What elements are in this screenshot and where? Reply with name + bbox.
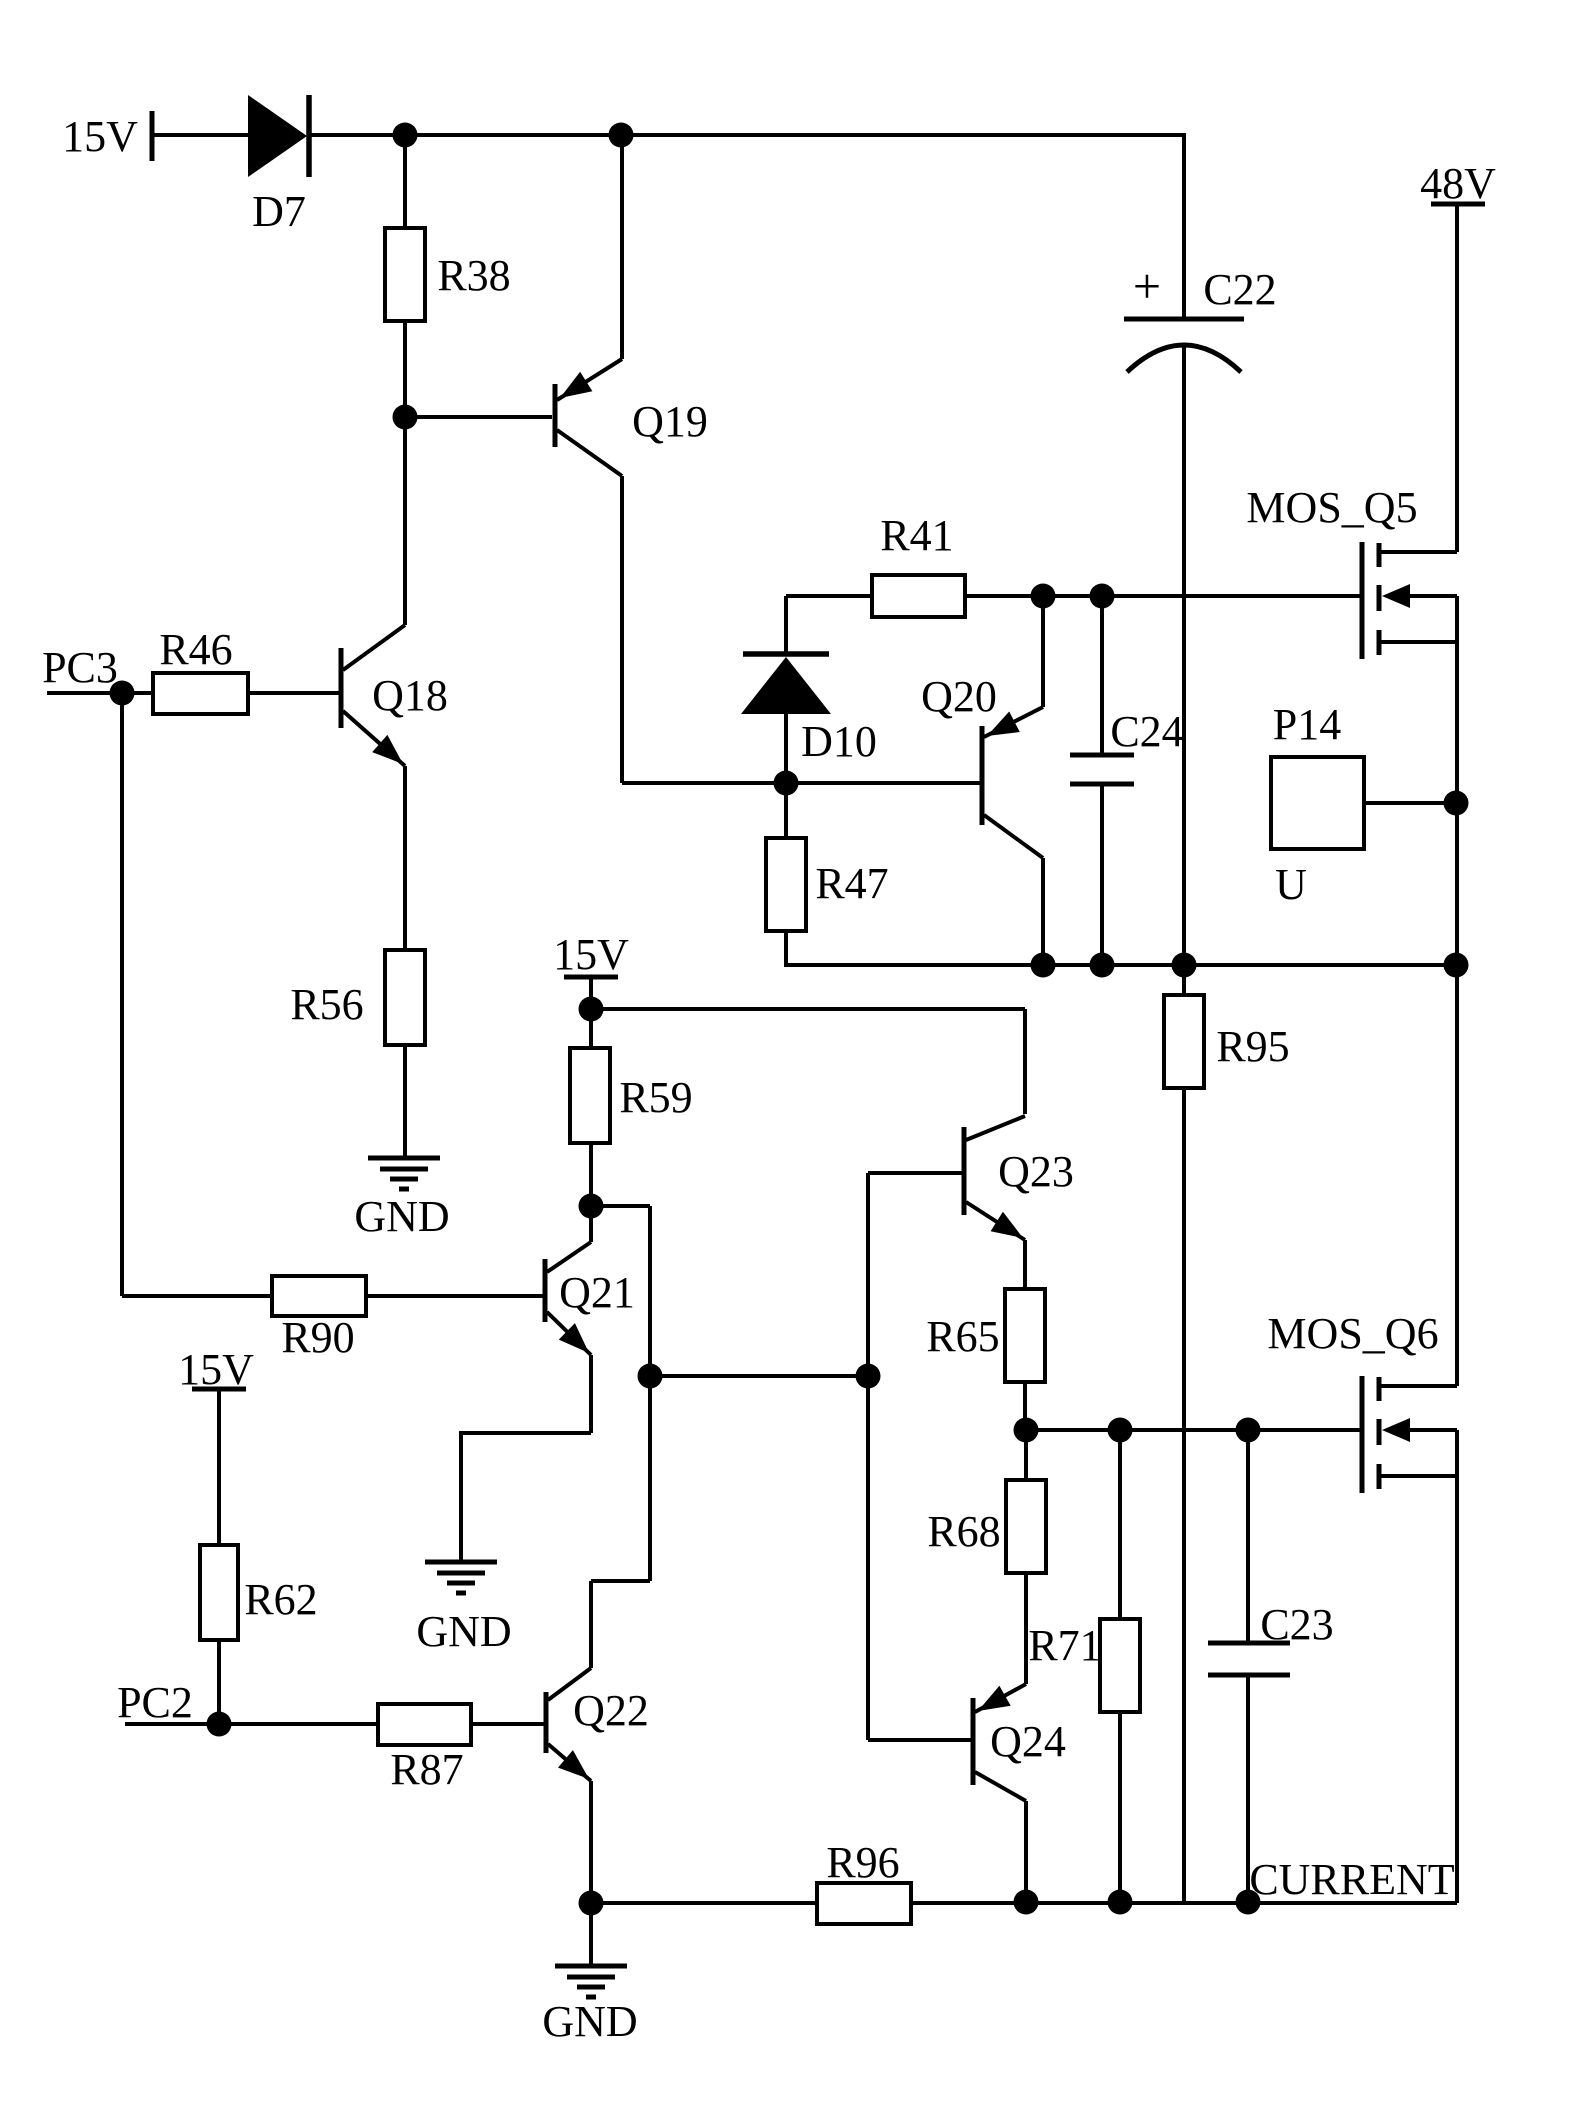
capacitor C24 wire lower	[1100, 784, 1104, 965]
svg-text:GND: GND	[416, 1607, 511, 1656]
wire D10 anode down to node	[784, 714, 788, 783]
transistor Q18 collector lead (upper)	[343, 625, 405, 670]
wire Q23 emitter to R65	[1023, 1240, 1027, 1289]
wire R90 to Q21 base	[366, 1294, 543, 1298]
wire P14 to right rail	[1364, 801, 1457, 805]
node crossover to Q23/Q24 base rail	[638, 1364, 663, 1389]
resistor R90	[272, 1276, 366, 1316]
transistor Q23 base bar	[962, 1127, 967, 1215]
transistor Q24 emitter arrow	[978, 1686, 1011, 1711]
node bus / R71	[1108, 1890, 1133, 1915]
node bus / C23	[1236, 1890, 1261, 1915]
wire corner down to D10 cathode	[784, 596, 788, 654]
svg-text:R46: R46	[159, 625, 232, 674]
transistor Q19 collector lead (lower)	[557, 430, 622, 476]
node Q22 emitter / GND / bus	[579, 1891, 604, 1916]
wire D10 node to R47	[784, 783, 788, 838]
mosfet MOS_Q5 source wire	[1379, 640, 1457, 644]
wire Q21 emitter to ground leg	[459, 1431, 591, 1435]
svg-text:R38: R38	[437, 251, 510, 300]
mosfet MOS_Q5 channel segment mid	[1377, 585, 1382, 611]
svg-text:Q19: Q19	[632, 397, 708, 446]
svg-text:48V: 48V	[1420, 159, 1496, 208]
transistor Q18 base bar	[339, 648, 344, 728]
svg-text:R96: R96	[826, 1838, 899, 1887]
wire PC2 to R87	[125, 1722, 378, 1726]
node gate bus / R65-R68	[1014, 1418, 1039, 1443]
svg-text:R62: R62	[244, 1575, 317, 1624]
svg-text:GND: GND	[542, 1997, 637, 2046]
transistor Q18 emitter lead (lower)	[343, 711, 405, 766]
wire R46 to Q18 base	[248, 691, 339, 695]
wire to Q23/Q24 base rail	[650, 1374, 868, 1378]
svg-text:D7: D7	[252, 187, 306, 236]
wire 15V to D7 anode	[152, 133, 250, 137]
wire Q24 collector down to bus	[1024, 1801, 1028, 1903]
resistor R41	[872, 575, 965, 617]
wire Q21 emitter down	[589, 1355, 593, 1433]
wire node right	[591, 1204, 650, 1208]
wire Q19 emitter up to top rail	[620, 135, 624, 359]
svg-text:15V: 15V	[553, 930, 629, 979]
node PC2 junction	[207, 1712, 232, 1737]
capacitor C23 wire lower	[1246, 1675, 1250, 1903]
diode D10 cathode bar	[743, 651, 829, 657]
svg-text:P14: P14	[1273, 700, 1341, 749]
wire Q23 base	[868, 1171, 962, 1175]
mosfet MOS_Q6 body wire	[1408, 1428, 1457, 1432]
svg-text:Q23: Q23	[998, 1147, 1074, 1196]
wire Q18 emitter down to R56	[403, 766, 407, 950]
wire node to bottom ground	[589, 1903, 593, 1966]
wire MOS_Q6 source down to CURRENT bus	[1455, 1430, 1459, 1903]
transistor Q21 collector lead (upper)	[547, 1242, 591, 1272]
wire Q21 collector up	[589, 1206, 593, 1242]
svg-text:D10: D10	[801, 717, 877, 766]
node junction top rail / R38	[393, 123, 418, 148]
capacitor C23 wire upper	[1246, 1430, 1250, 1643]
node R41 / Q20 collector	[1031, 584, 1056, 609]
wire Q22 collector jog	[589, 1581, 593, 1668]
svg-text:MOS_Q6: MOS_Q6	[1267, 1309, 1438, 1358]
transistor Q21 base bar	[543, 1259, 548, 1322]
svg-text:Q21: Q21	[559, 1268, 635, 1317]
transistor Q23 emitter lead (lower)	[966, 1202, 1025, 1240]
mosfet MOS_Q6 gate bar	[1360, 1376, 1365, 1493]
resistor R46	[153, 673, 248, 714]
resistor R56	[385, 950, 425, 1045]
svg-text:GND: GND	[354, 1192, 449, 1241]
node D10 / R47 junction	[774, 771, 799, 796]
mosfet MOS_Q5 channel segment bottom	[1377, 630, 1382, 655]
capacitor C22 curved plate	[1127, 345, 1241, 372]
wire corner to R90	[122, 1294, 272, 1298]
mosfet MOS_Q5 drain wire	[1379, 550, 1457, 554]
capacitor C23 bottom plate	[1208, 1673, 1290, 1678]
capacitor C24 wire upper	[1100, 596, 1104, 755]
wire R95 down to CURRENT bus	[1182, 1088, 1186, 1901]
wire node to Q23 collector feed	[591, 1007, 1025, 1011]
svg-text:MOS_Q5: MOS_Q5	[1246, 483, 1417, 532]
resistor R38	[385, 228, 425, 321]
transistor Q22 base bar	[544, 1692, 549, 1753]
svg-text:R95: R95	[1216, 1022, 1289, 1071]
ground bottom	[555, 1964, 627, 1969]
wire down to Q22 collector jog	[648, 1206, 652, 1581]
mosfet MOS_Q5 gate bar	[1360, 542, 1365, 659]
wire R87 to Q22 base	[471, 1722, 544, 1726]
node gate wire / C24	[1090, 584, 1115, 609]
svg-text:R87: R87	[390, 1745, 463, 1794]
resistor R71 wire top	[1118, 1430, 1122, 1619]
wire R71 to bus	[1118, 1712, 1122, 1903]
wire R62 to PC2 node	[217, 1640, 221, 1724]
wire 15V to R62	[217, 1389, 221, 1545]
node gate bus / R71	[1108, 1418, 1133, 1443]
transistor Q22 collector lead (upper)	[548, 1668, 591, 1700]
wire R68 to Q24 emitter	[1024, 1573, 1028, 1684]
wire R65 to gate bus	[1023, 1382, 1027, 1430]
svg-text:Q22: Q22	[573, 1686, 649, 1735]
node mid rail / C22-R95	[1172, 953, 1197, 978]
transistor Q21 emitter arrow	[559, 1323, 589, 1353]
resistor R65	[1005, 1289, 1045, 1382]
transistor Q18 emitter arrow	[372, 735, 403, 764]
node mid rail / C24	[1090, 953, 1115, 978]
svg-text:+: +	[1133, 258, 1161, 314]
resistor R71	[1100, 1619, 1140, 1712]
transistor Q20 base bar	[980, 726, 985, 825]
resistor R96	[817, 1883, 911, 1924]
wire gate bus to MOS_Q6	[1026, 1428, 1362, 1432]
svg-text:R65: R65	[926, 1312, 999, 1361]
wire Q22 emitter down to bus	[589, 1781, 593, 1903]
node junction top rail / Q19 collector	[609, 123, 634, 148]
diode D7	[248, 95, 307, 177]
svg-text:R71: R71	[1028, 1621, 1101, 1670]
svg-text:R90: R90	[281, 1313, 354, 1362]
node P14 / right rail	[1444, 791, 1469, 816]
wire Q20 collector down to mid rail	[1041, 858, 1045, 965]
diode D10 triangle	[741, 657, 831, 714]
wire R59 to Q21 collector node	[589, 1143, 593, 1206]
15V terminal tick (middle)	[564, 975, 618, 980]
transistor Q24 emitter lead (upper)	[975, 1684, 1026, 1712]
connector P14	[1271, 757, 1364, 849]
node Q19 base / R38 / Q18 collector	[393, 405, 418, 430]
transistor Q21 emitter lead (lower)	[547, 1312, 591, 1355]
svg-text:U: U	[1275, 860, 1307, 909]
wire Q20 emitter up to R41 node	[1041, 596, 1045, 707]
transistor Q20 emitter arrow	[987, 712, 1020, 737]
wire MOS_Q5 source rail down to MOS_Q6 drain	[1455, 596, 1459, 1386]
wire R56 to ground	[403, 1045, 407, 1158]
wire top rail down to C22	[1182, 133, 1186, 319]
wire C22 to R95 / mid rail	[1182, 345, 1186, 995]
wire bus left segment	[591, 1901, 817, 1905]
transistor Q24 collector lead (lower)	[975, 1772, 1026, 1801]
node PC3 junction	[110, 681, 135, 706]
svg-text:Q20: Q20	[921, 672, 997, 721]
resistor R62	[200, 1545, 238, 1640]
mosfet MOS_Q5 channel segment top	[1377, 543, 1382, 567]
resistor R95	[1164, 995, 1204, 1088]
transistor Q19 emitter arrow	[560, 372, 592, 398]
capacitor C24 top plate	[1070, 753, 1134, 758]
wire PC3 node down to R90	[120, 693, 124, 1296]
transistor Q22 emitter arrow	[558, 1750, 589, 1779]
wire jog horizontal	[591, 1579, 650, 1583]
wire base rail vertical (Q23/Q24)	[866, 1173, 870, 1740]
wire down to Q23 collector	[1023, 1009, 1027, 1114]
capacitor C22 top plate	[1124, 317, 1244, 322]
svg-text:R41: R41	[880, 511, 953, 560]
transistor Q19 base wire	[405, 415, 552, 419]
node gate bus / C23	[1236, 1418, 1261, 1443]
transistor Q20 collector lead (lower)	[984, 815, 1043, 858]
mosfet MOS_Q6 body arrow	[1382, 1418, 1410, 1442]
resistor R87	[378, 1704, 471, 1745]
mosfet MOS_Q5 body wire	[1408, 594, 1457, 598]
wire 48V down to MOS_Q5 drain	[1455, 204, 1459, 552]
wire Q19 collector down	[620, 476, 624, 783]
mosfet MOS_Q6 channel segment bottom	[1377, 1464, 1382, 1489]
ground under R56	[368, 1156, 440, 1161]
mosfet MOS_Q5 body arrow	[1382, 584, 1410, 608]
15V terminal tick	[150, 111, 155, 161]
mosfet MOS_Q6 source wire	[1379, 1474, 1457, 1478]
svg-text:C22: C22	[1203, 265, 1276, 314]
wire ground leg down	[459, 1433, 463, 1562]
resistor R68	[1006, 1480, 1046, 1573]
resistor R47	[766, 838, 806, 931]
wire Q24 base	[868, 1738, 971, 1742]
transistor Q22 emitter lead (lower)	[548, 1744, 591, 1781]
transistor Q19 emitter lead (upper)	[557, 359, 622, 400]
svg-text:R68: R68	[927, 1507, 1000, 1556]
mosfet MOS_Q6 channel segment top	[1377, 1377, 1382, 1401]
15V terminal tick (lower left)	[192, 1387, 246, 1392]
wire R47 to mid rail	[784, 931, 788, 967]
svg-text:R56: R56	[290, 980, 363, 1029]
node mid rail / Q20 collector	[1031, 953, 1056, 978]
resistor R59	[570, 1048, 610, 1143]
wire 15V tick to node	[589, 977, 593, 1009]
wire 15V node to R59	[589, 1009, 593, 1048]
svg-text:C24: C24	[1110, 707, 1183, 756]
transistor Q23 collector lead (upper)	[966, 1116, 1025, 1140]
wire R68 from node	[1024, 1430, 1028, 1480]
mosfet MOS_Q6 channel segment mid	[1377, 1419, 1382, 1445]
transistor Q23 emitter arrow	[991, 1212, 1023, 1238]
48V terminal tick	[1431, 202, 1485, 207]
transistor Q19 base bar	[553, 384, 558, 447]
svg-text:CURRENT: CURRENT	[1249, 1855, 1454, 1904]
svg-text:PC2: PC2	[117, 1678, 193, 1727]
ground under Q21	[425, 1560, 497, 1565]
wire R41 left to D10 corner	[786, 594, 872, 598]
svg-text:R47: R47	[815, 859, 888, 908]
node Q21 collector / crossover	[579, 1194, 604, 1219]
svg-text:Q18: Q18	[372, 671, 448, 720]
wire Q19 collector to Q20 base	[622, 781, 982, 785]
wire mid rail (GND bus of driver)	[786, 963, 1456, 967]
node 15V / R59 / Q23 feed	[579, 997, 604, 1022]
wire D7 cathode to top-right corner (top rail)	[309, 133, 1184, 137]
capacitor C23 top plate	[1208, 1641, 1290, 1646]
wire R41 right to MOS_Q5 gate	[965, 594, 1362, 598]
wire CURRENT bus	[911, 1901, 1457, 1905]
wire node down to Q18 collector	[403, 417, 407, 625]
svg-text:PC3: PC3	[42, 643, 118, 692]
svg-text:Q24: Q24	[990, 1717, 1066, 1766]
mosfet MOS_Q6 drain wire	[1379, 1384, 1457, 1388]
transistor Q24 base bar	[971, 1698, 976, 1785]
transistor Q20 emitter lead (upper)	[984, 707, 1043, 737]
node mid rail / right rail	[1444, 953, 1469, 978]
node base rail junction	[856, 1364, 881, 1389]
wire top rail to R38	[403, 135, 407, 228]
wire R38 to Q19 base node	[403, 321, 407, 417]
wire PC3 to R46	[47, 691, 153, 695]
svg-text:R59: R59	[619, 1073, 692, 1122]
svg-text:15V: 15V	[62, 112, 138, 161]
capacitor C24 bottom plate	[1070, 782, 1134, 787]
node bus / Q24 collector	[1014, 1890, 1039, 1915]
